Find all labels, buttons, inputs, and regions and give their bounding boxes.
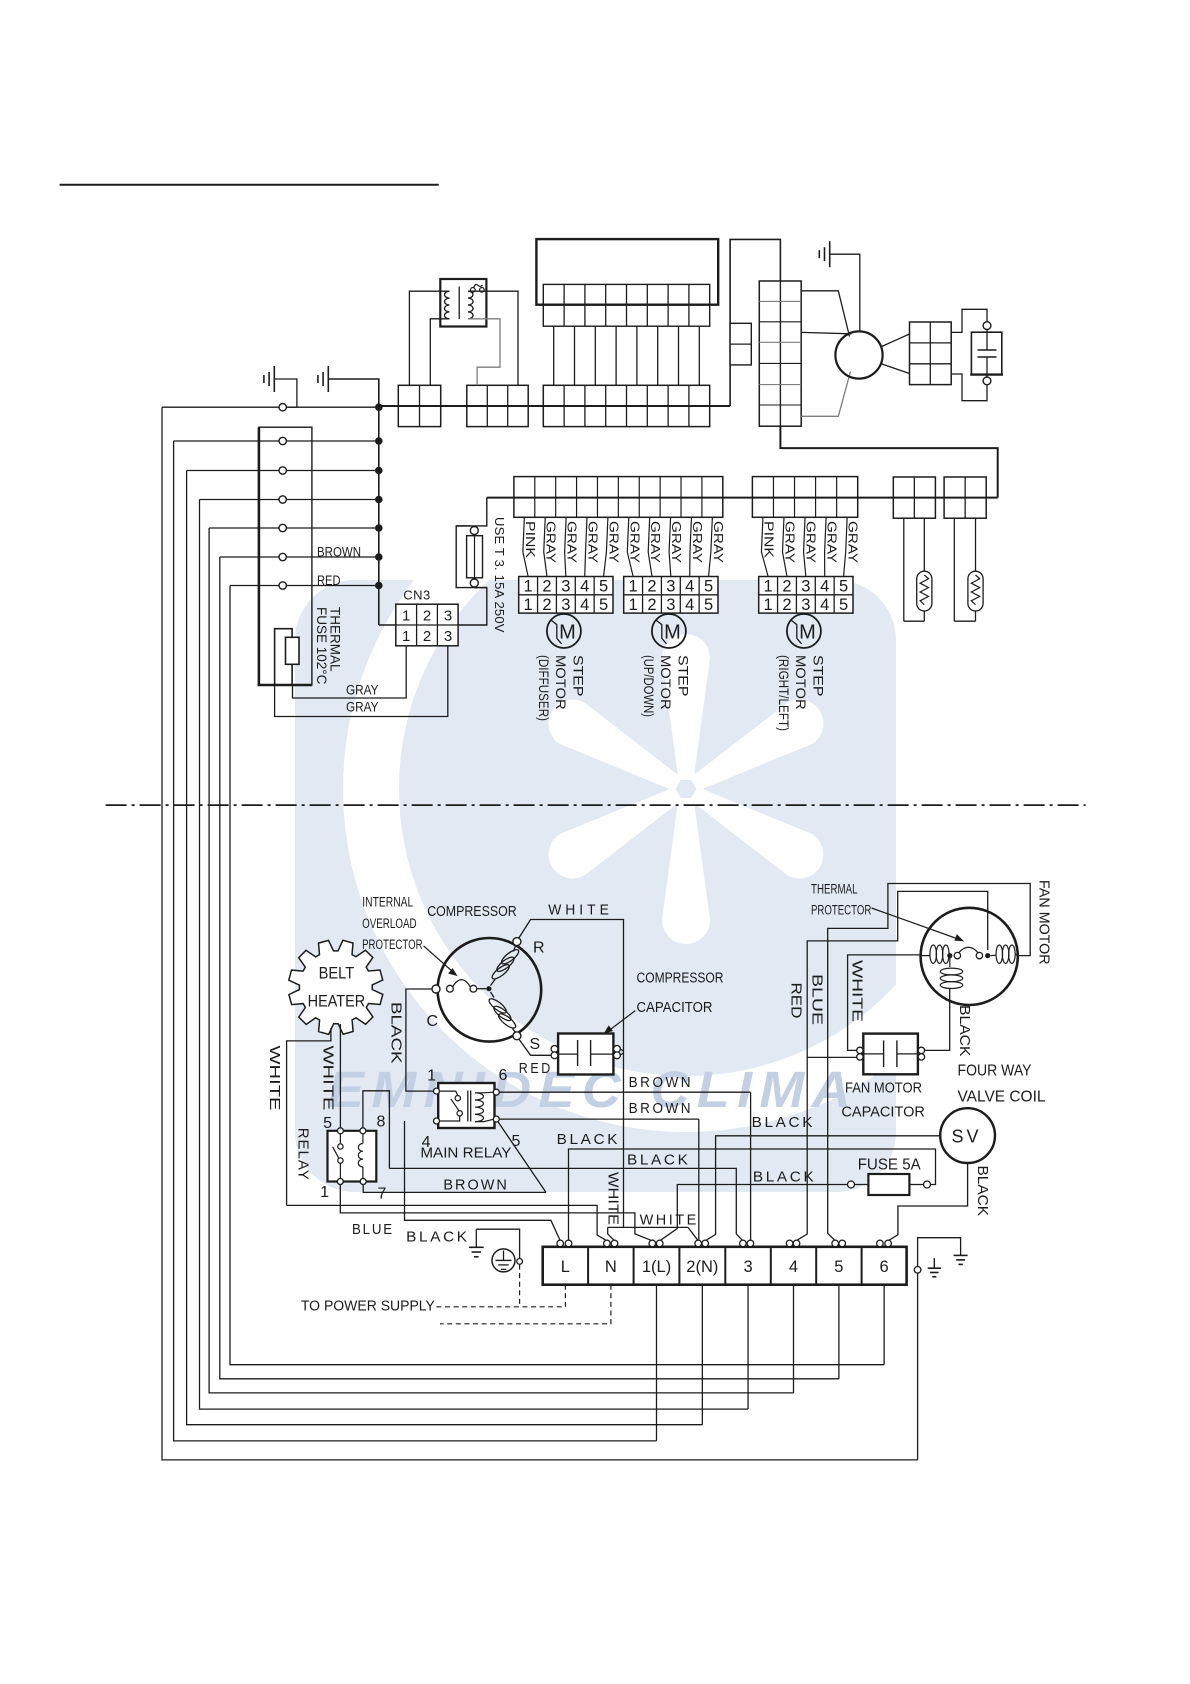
- svg-text:3: 3: [444, 607, 452, 624]
- svg-text:INTERNAL: INTERNAL: [362, 895, 413, 910]
- svg-text:4: 4: [685, 596, 694, 614]
- svg-text:BLACK: BLACK: [387, 1002, 404, 1064]
- svg-text:WHITE: WHITE: [266, 1046, 283, 1111]
- svg-text:BROWN: BROWN: [629, 1100, 694, 1117]
- svg-text:RED: RED: [317, 573, 341, 588]
- svg-text:2: 2: [423, 628, 431, 645]
- svg-text:BROWN: BROWN: [629, 1074, 694, 1091]
- svg-text:STEP: STEP: [676, 655, 692, 697]
- svg-text:2(N): 2(N): [686, 1258, 718, 1276]
- svg-text:5: 5: [839, 596, 848, 614]
- svg-text:WHITE: WHITE: [604, 1172, 621, 1225]
- svg-text:S: S: [530, 1036, 541, 1053]
- svg-text:CAPACITOR: CAPACITOR: [841, 1104, 925, 1121]
- svg-text:R: R: [533, 940, 545, 957]
- svg-text:1: 1: [524, 578, 533, 596]
- svg-text:3: 3: [561, 578, 570, 596]
- svg-text:2: 2: [542, 578, 551, 596]
- svg-text:BLUE: BLUE: [352, 1222, 394, 1238]
- svg-text:MAIN RELAY: MAIN RELAY: [420, 1145, 511, 1162]
- svg-text:BLACK: BLACK: [956, 1005, 973, 1057]
- svg-text:GRAY: GRAY: [565, 521, 580, 563]
- svg-text:RELAY: RELAY: [294, 1128, 311, 1181]
- svg-text:1: 1: [524, 596, 533, 614]
- svg-text:BLACK: BLACK: [557, 1132, 621, 1148]
- svg-text:PINK: PINK: [523, 521, 538, 558]
- svg-text:GRAY: GRAY: [711, 521, 726, 563]
- svg-text:PROTECTOR: PROTECTOR: [811, 902, 871, 917]
- svg-text:6: 6: [880, 1258, 889, 1276]
- svg-text:BLUE: BLUE: [808, 974, 824, 1025]
- svg-text:5: 5: [599, 578, 608, 596]
- svg-text:RED: RED: [788, 983, 804, 1019]
- svg-text:C: C: [427, 1013, 439, 1030]
- svg-text:WHITE: WHITE: [320, 1046, 337, 1111]
- svg-text:FUSE 102°C: FUSE 102°C: [314, 607, 329, 685]
- svg-text:2: 2: [423, 607, 431, 624]
- svg-text:STEP: STEP: [571, 655, 587, 697]
- svg-text:3: 3: [666, 596, 675, 614]
- svg-text:GRAY: GRAY: [586, 521, 601, 563]
- svg-text:5: 5: [599, 596, 608, 614]
- svg-text:N: N: [605, 1258, 617, 1276]
- svg-text:1: 1: [427, 1068, 436, 1085]
- svg-text:4: 4: [820, 578, 829, 596]
- svg-text:2: 2: [647, 596, 656, 614]
- svg-text:FAN MOTOR: FAN MOTOR: [1036, 880, 1053, 965]
- svg-text:GRAY: GRAY: [825, 521, 840, 563]
- svg-text:WHITE: WHITE: [640, 1213, 699, 1229]
- svg-text:1: 1: [629, 578, 638, 596]
- svg-text:BLACK: BLACK: [406, 1230, 470, 1246]
- svg-text:GRAY: GRAY: [627, 521, 642, 563]
- svg-text:COMPRESSOR: COMPRESSOR: [427, 903, 517, 920]
- svg-text:WHITE: WHITE: [848, 960, 865, 1022]
- svg-text:VALVE COIL: VALVE COIL: [958, 1089, 1046, 1106]
- svg-text:GRAY: GRAY: [782, 521, 797, 563]
- svg-text:FAN MOTOR: FAN MOTOR: [845, 1080, 922, 1097]
- svg-text:FOUR WAY: FOUR WAY: [958, 1063, 1032, 1080]
- svg-text:M: M: [799, 621, 816, 643]
- svg-text:5: 5: [704, 578, 713, 596]
- svg-text:1: 1: [764, 596, 773, 614]
- svg-text:(RIGHT/LEFT): (RIGHT/LEFT): [776, 655, 792, 731]
- svg-text:MOTOR: MOTOR: [793, 655, 809, 710]
- svg-text:4: 4: [820, 596, 829, 614]
- svg-text:4: 4: [580, 578, 589, 596]
- svg-text:BROWN: BROWN: [317, 545, 361, 560]
- svg-text:2: 2: [782, 578, 791, 596]
- svg-text:WHITE: WHITE: [548, 903, 613, 919]
- svg-text:GRAY: GRAY: [606, 521, 621, 563]
- svg-text:PINK: PINK: [761, 521, 776, 558]
- svg-text:M: M: [664, 621, 681, 643]
- svg-text:5: 5: [839, 578, 848, 596]
- svg-text:3: 3: [801, 578, 810, 596]
- svg-text:BELT: BELT: [319, 965, 355, 983]
- svg-text:(DIFFUSER): (DIFFUSER): [536, 655, 552, 721]
- svg-text:BROWN: BROWN: [443, 1178, 508, 1194]
- svg-text:PROTECTOR: PROTECTOR: [362, 937, 423, 952]
- svg-text:SV: SV: [951, 1127, 981, 1147]
- svg-text:8: 8: [377, 1114, 386, 1131]
- svg-text:MOTOR: MOTOR: [658, 655, 674, 710]
- svg-text:5: 5: [834, 1258, 843, 1276]
- svg-text:GRAY: GRAY: [669, 521, 684, 563]
- svg-text:RED: RED: [519, 1061, 553, 1077]
- svg-text:GRAY: GRAY: [648, 521, 663, 563]
- svg-text:M: M: [559, 621, 576, 643]
- svg-text:3: 3: [801, 596, 810, 614]
- svg-text:2: 2: [782, 596, 791, 614]
- svg-text:3: 3: [561, 596, 570, 614]
- svg-text:5: 5: [704, 596, 713, 614]
- svg-text:5: 5: [323, 1115, 332, 1132]
- svg-text:COMPRESSOR: COMPRESSOR: [637, 970, 724, 987]
- svg-text:HEATER: HEATER: [308, 993, 366, 1011]
- svg-text:STEP: STEP: [811, 655, 827, 697]
- svg-text:MOTOR: MOTOR: [553, 655, 569, 710]
- svg-text:4: 4: [580, 596, 589, 614]
- svg-text:3: 3: [666, 578, 675, 596]
- svg-text:TO POWER SUPPLY: TO POWER SUPPLY: [301, 1299, 435, 1315]
- svg-text:2: 2: [647, 578, 656, 596]
- svg-text:4: 4: [685, 578, 694, 596]
- svg-text:GRAY: GRAY: [346, 700, 379, 715]
- svg-text:1: 1: [764, 578, 773, 596]
- svg-text:3: 3: [743, 1258, 752, 1276]
- svg-text:6: 6: [499, 1067, 508, 1084]
- svg-text:GRAY: GRAY: [846, 521, 861, 563]
- svg-text:1: 1: [320, 1184, 329, 1201]
- svg-text:3: 3: [444, 628, 452, 645]
- svg-text:4: 4: [789, 1258, 798, 1276]
- svg-text:(UP/DOWN): (UP/DOWN): [641, 655, 657, 717]
- svg-text:GRAY: GRAY: [544, 521, 559, 563]
- svg-text:BLACK: BLACK: [627, 1153, 691, 1169]
- svg-text:FUSE 5A: FUSE 5A: [858, 1157, 922, 1174]
- svg-text:OVERLOAD: OVERLOAD: [362, 916, 417, 931]
- svg-text:BLACK: BLACK: [752, 1115, 816, 1131]
- svg-text:L: L: [561, 1258, 570, 1276]
- svg-text:1: 1: [629, 596, 638, 614]
- svg-text:THERMAL: THERMAL: [811, 882, 858, 897]
- svg-text:1: 1: [402, 607, 410, 624]
- svg-text:GRAY: GRAY: [346, 683, 379, 698]
- svg-text:BLACK: BLACK: [974, 1166, 991, 1217]
- svg-text:USE T 3. 15A 250V: USE T 3. 15A 250V: [492, 517, 507, 633]
- svg-text:CN3: CN3: [403, 588, 431, 603]
- svg-text:1: 1: [402, 628, 410, 645]
- svg-text:CAPACITOR: CAPACITOR: [637, 999, 713, 1016]
- svg-text:GRAY: GRAY: [690, 521, 705, 563]
- svg-text:GRAY: GRAY: [804, 521, 819, 563]
- svg-text:2: 2: [542, 596, 551, 614]
- svg-text:7: 7: [378, 1186, 387, 1203]
- svg-text:1(L): 1(L): [642, 1258, 671, 1276]
